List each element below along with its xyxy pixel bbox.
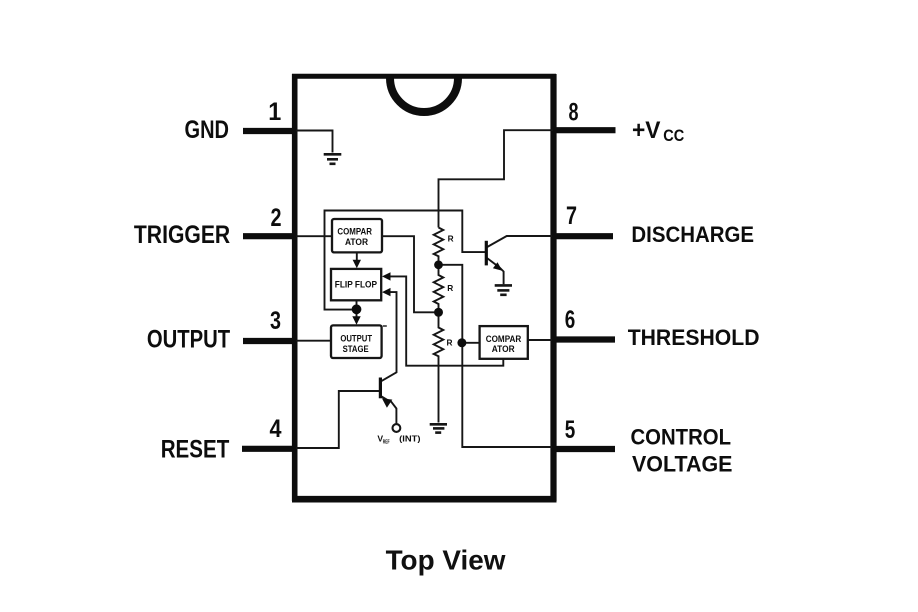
svg-text:2: 2 <box>271 204 282 232</box>
svg-text:CONTROL: CONTROL <box>631 425 732 450</box>
svg-text:THRESHOLD: THRESHOLD <box>628 325 760 350</box>
svg-text:COMPAR: COMPAR <box>337 226 372 236</box>
svg-text:TRIGGER: TRIGGER <box>134 221 230 249</box>
svg-text:ATOR: ATOR <box>345 237 368 247</box>
svg-text:Top View: Top View <box>386 545 506 576</box>
svg-text:5: 5 <box>565 416 576 444</box>
svg-text:REF: REF <box>383 439 390 445</box>
svg-text:7: 7 <box>566 202 577 230</box>
svg-text:(INT): (INT) <box>399 434 420 444</box>
svg-text:6: 6 <box>565 306 576 334</box>
svg-text:GND: GND <box>185 116 230 144</box>
svg-text:ATOR: ATOR <box>492 344 515 354</box>
svg-text:R: R <box>447 283 453 293</box>
svg-text:VOLTAGE: VOLTAGE <box>632 452 733 477</box>
svg-text:+VCC: +VCC <box>632 117 684 145</box>
svg-text:3: 3 <box>270 307 281 335</box>
svg-text:COMPAR: COMPAR <box>486 334 522 344</box>
svg-text:R: R <box>448 234 454 244</box>
svg-text:R: R <box>447 338 453 348</box>
svg-text:OUTPUT: OUTPUT <box>340 334 372 344</box>
svg-text:DISCHARGE: DISCHARGE <box>631 222 754 247</box>
svg-text:8: 8 <box>569 99 579 127</box>
svg-text:RESET: RESET <box>161 436 230 464</box>
svg-text:STAGE: STAGE <box>343 344 369 354</box>
svg-text:FLIP FLOP: FLIP FLOP <box>335 280 377 290</box>
svg-text:OUTPUT: OUTPUT <box>147 325 230 353</box>
svg-text:1: 1 <box>268 98 281 126</box>
svg-text:4: 4 <box>270 415 282 443</box>
